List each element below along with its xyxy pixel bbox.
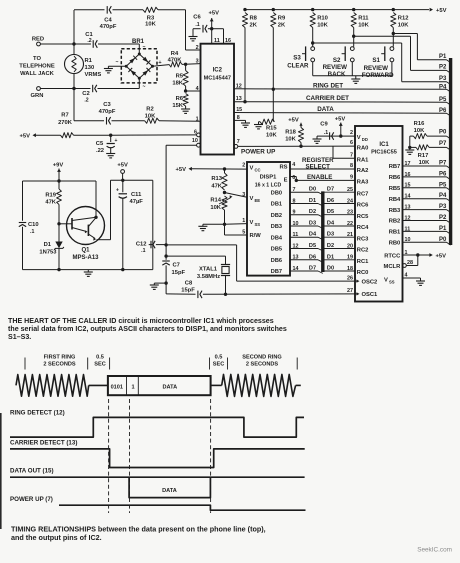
svg-text:S2: S2 [333, 57, 341, 64]
svg-text:D5: D5 [327, 209, 334, 215]
svg-text:21: 21 [347, 232, 353, 238]
svg-text:D3: D3 [309, 221, 316, 227]
svg-text:D4: D4 [309, 232, 317, 238]
svg-text:RS: RS [279, 165, 287, 171]
svg-text:1N753: 1N753 [39, 250, 57, 256]
svg-text:CARRIER DET: CARRIER DET [306, 95, 349, 102]
svg-text:S1: S1 [372, 57, 380, 64]
svg-text:+9V: +9V [53, 163, 64, 169]
svg-text:C4: C4 [104, 18, 112, 24]
svg-text:10K: 10K [210, 205, 221, 211]
svg-text:RB1: RB1 [389, 230, 401, 236]
svg-text:+5V: +5V [436, 8, 447, 14]
svg-text:DB4: DB4 [271, 235, 283, 241]
svg-text:SEC: SEC [213, 362, 225, 368]
svg-text:RB0: RB0 [389, 241, 401, 247]
svg-text:C10: C10 [28, 222, 39, 228]
svg-text:270K: 270K [58, 120, 73, 126]
svg-text:+5V: +5V [117, 163, 128, 169]
svg-text:D7: D7 [309, 266, 316, 272]
svg-text:REVIEW: REVIEW [323, 64, 348, 71]
svg-text:POWER UP: POWER UP [241, 149, 275, 156]
svg-text:RB2: RB2 [389, 219, 401, 225]
svg-text:P5: P5 [439, 97, 447, 103]
svg-text:4: 4 [292, 162, 295, 168]
svg-text:RC0: RC0 [357, 270, 369, 276]
svg-text:CC: CC [255, 168, 261, 173]
svg-text:C8: C8 [185, 281, 193, 287]
svg-text:SS: SS [389, 279, 395, 284]
svg-text:P7: P7 [439, 141, 447, 147]
svg-text:RC7: RC7 [357, 191, 369, 197]
svg-text:RTCC: RTCC [384, 253, 401, 259]
svg-text:S3: S3 [293, 55, 301, 62]
svg-text:TO: TO [33, 56, 41, 62]
svg-text:C12: C12 [136, 242, 147, 248]
svg-text:IC1: IC1 [379, 142, 389, 148]
svg-text:DB1: DB1 [271, 202, 282, 208]
svg-text:D1: D1 [44, 242, 52, 248]
svg-text:10K: 10K [266, 133, 277, 139]
svg-text:1: 1 [196, 117, 199, 123]
svg-text:RB7: RB7 [389, 164, 401, 170]
svg-text:D2: D2 [327, 243, 334, 249]
svg-text:RA0: RA0 [357, 145, 369, 151]
svg-text:RA3: RA3 [357, 180, 369, 186]
svg-text:10K: 10K [414, 128, 425, 134]
svg-text:the serial data from IC2, outp: the serial data from IC2, outputs ASCII … [8, 325, 287, 333]
svg-text:and the output pins of IC2.: and the output pins of IC2. [11, 533, 102, 542]
svg-text:D4: D4 [327, 221, 335, 227]
svg-text:P3: P3 [439, 76, 447, 82]
svg-text:RED: RED [32, 37, 44, 43]
svg-text:6: 6 [350, 140, 353, 146]
svg-text:TELEPHONE: TELEPHONE [19, 64, 55, 70]
svg-text:~: ~ [143, 45, 146, 51]
svg-text:3: 3 [196, 58, 199, 64]
svg-text:R11: R11 [358, 16, 369, 22]
svg-text:R15: R15 [266, 126, 277, 132]
svg-text:2 SECONDS: 2 SECONDS [43, 362, 76, 368]
svg-text:15pF: 15pF [172, 270, 186, 276]
svg-text:6: 6 [194, 130, 197, 136]
svg-text:RC1: RC1 [357, 259, 369, 265]
svg-text:+5V: +5V [209, 10, 220, 16]
svg-text:470K: 470K [168, 58, 183, 64]
svg-text:V: V [384, 277, 388, 283]
svg-text:P2: P2 [439, 215, 447, 221]
svg-text:R10: R10 [317, 16, 328, 22]
svg-text:2: 2 [242, 162, 245, 168]
svg-text:R17: R17 [418, 153, 429, 159]
svg-text:Q1: Q1 [81, 248, 90, 254]
svg-text:R4: R4 [171, 51, 179, 57]
svg-text:1: 1 [242, 218, 245, 224]
svg-text:8: 8 [350, 163, 353, 169]
svg-text:WALL JACK: WALL JACK [20, 71, 55, 77]
svg-text:P4: P4 [439, 193, 447, 199]
svg-text:BACK: BACK [328, 71, 346, 78]
svg-text:20: 20 [347, 243, 353, 249]
svg-text:2: 2 [350, 130, 353, 136]
svg-text:11: 11 [214, 38, 220, 44]
svg-text:.22: .22 [96, 148, 104, 154]
svg-text:PIC16C55: PIC16C55 [371, 150, 397, 156]
svg-text:47K: 47K [211, 184, 222, 190]
svg-text:SeekIC.com: SeekIC.com [417, 547, 452, 554]
svg-text:2K: 2K [278, 23, 286, 29]
svg-text:9: 9 [350, 175, 353, 181]
svg-text:0.5: 0.5 [215, 355, 223, 361]
svg-text:DATA: DATA [162, 384, 177, 390]
svg-text:.2: .2 [84, 98, 88, 104]
svg-text:R19: R19 [45, 193, 56, 199]
svg-text:18K: 18K [172, 81, 183, 87]
svg-text:XTAL1: XTAL1 [199, 267, 218, 273]
svg-text:25: 25 [347, 187, 353, 193]
svg-text:26: 26 [347, 275, 353, 281]
svg-text:RC5: RC5 [357, 214, 369, 220]
svg-text:10K: 10K [419, 160, 430, 166]
svg-text:S1–S3.: S1–S3. [8, 333, 31, 341]
svg-text:+: + [115, 138, 118, 144]
svg-text:RA1: RA1 [357, 158, 369, 164]
svg-text:DB2: DB2 [271, 213, 282, 219]
svg-text:22: 22 [347, 221, 353, 227]
svg-text:R13: R13 [211, 176, 222, 182]
svg-text:DB5: DB5 [271, 247, 282, 253]
svg-text:R14: R14 [210, 198, 221, 204]
svg-text:E: E [284, 178, 288, 184]
svg-text:SS: SS [255, 222, 261, 227]
svg-text:P2: P2 [439, 64, 447, 70]
svg-text:V: V [250, 220, 254, 226]
svg-text:EE: EE [255, 198, 261, 203]
svg-text:R2: R2 [146, 107, 153, 113]
svg-text:RB5: RB5 [389, 186, 401, 192]
svg-text:24: 24 [347, 198, 353, 204]
svg-text:+5V: +5V [288, 118, 299, 124]
svg-text:+5V: +5V [20, 134, 31, 140]
svg-text:P1: P1 [439, 226, 447, 232]
svg-text:C3: C3 [103, 102, 111, 108]
svg-text:+: + [116, 188, 119, 194]
svg-text:P4: P4 [439, 85, 447, 91]
svg-text:RB4: RB4 [389, 197, 401, 203]
svg-text:SECOND RING: SECOND RING [242, 355, 281, 361]
svg-text:DB0: DB0 [271, 190, 282, 196]
svg-text:15K: 15K [172, 103, 183, 109]
svg-text:SELECT: SELECT [306, 163, 331, 170]
svg-text:27: 27 [347, 288, 353, 294]
svg-text:18: 18 [347, 266, 353, 272]
svg-text:RB6: RB6 [389, 175, 401, 181]
svg-text:P6: P6 [439, 171, 447, 177]
svg-text:P3: P3 [439, 204, 447, 210]
svg-text:C11: C11 [131, 192, 142, 198]
svg-text:GRN: GRN [31, 93, 44, 99]
svg-text:DATA: DATA [317, 106, 334, 113]
svg-text:D3: D3 [327, 232, 334, 238]
svg-text:P1: P1 [439, 54, 447, 60]
svg-text:RA2: RA2 [357, 168, 369, 174]
svg-text:R18: R18 [285, 130, 296, 136]
svg-text:D7: D7 [327, 187, 334, 193]
svg-text:C7: C7 [173, 263, 180, 269]
svg-text:OSC2: OSC2 [362, 279, 378, 285]
svg-text:R12: R12 [398, 16, 409, 22]
svg-text:10K: 10K [145, 22, 156, 28]
svg-text:.1: .1 [195, 22, 199, 28]
svg-text:10K: 10K [145, 114, 156, 120]
svg-text:C5: C5 [96, 141, 104, 147]
svg-text:OSC1: OSC1 [362, 292, 379, 298]
svg-text:C9: C9 [320, 122, 328, 128]
svg-text:D1: D1 [309, 198, 316, 204]
svg-text:MCLR: MCLR [384, 264, 402, 270]
svg-text:D0: D0 [309, 187, 316, 193]
svg-text:10K: 10K [285, 137, 296, 143]
svg-text:.1: .1 [141, 248, 145, 254]
svg-text:ENABLE: ENABLE [307, 174, 332, 181]
svg-text:~: ~ [116, 60, 119, 66]
svg-text:10: 10 [192, 138, 198, 144]
svg-text:.2: .2 [87, 38, 91, 44]
svg-text:D6: D6 [327, 198, 334, 204]
svg-text:DATA OUT (15): DATA OUT (15) [10, 468, 54, 475]
svg-text:10K: 10K [398, 23, 409, 29]
svg-text:P0: P0 [439, 237, 447, 243]
svg-text:+5V: +5V [335, 117, 346, 123]
svg-text:R16: R16 [414, 121, 425, 127]
svg-text:P6: P6 [439, 108, 447, 114]
svg-text:19: 19 [347, 255, 353, 261]
svg-text:10K: 10K [317, 23, 328, 29]
svg-text:REVIEW: REVIEW [364, 65, 389, 72]
svg-text:C6: C6 [193, 15, 201, 21]
svg-text:10K: 10K [358, 23, 369, 29]
svg-text:47µF: 47µF [130, 199, 144, 205]
svg-text:R/W: R/W [250, 233, 262, 239]
svg-text:D6: D6 [309, 254, 316, 260]
svg-text:7: 7 [350, 152, 353, 158]
svg-text:3.58MHz: 3.58MHz [197, 274, 220, 280]
svg-text:DB6: DB6 [271, 258, 282, 264]
svg-text:MC145447: MC145447 [204, 76, 231, 82]
svg-text:DD: DD [362, 137, 368, 142]
svg-text:2 SECONDS: 2 SECONDS [246, 362, 279, 368]
svg-text:R8: R8 [250, 16, 258, 22]
svg-text:DB7: DB7 [271, 269, 282, 275]
svg-text:R1: R1 [85, 58, 93, 64]
svg-text:23: 23 [347, 210, 353, 216]
svg-text:D2: D2 [309, 209, 316, 215]
svg-text:FIRST RING: FIRST RING [44, 355, 76, 361]
svg-text:THE HEART OF THE CALLER ID cir: THE HEART OF THE CALLER ID circuit is mi… [8, 317, 274, 325]
svg-text:470pF: 470pF [100, 24, 117, 30]
svg-text:RING DETECT (12): RING DETECT (12) [10, 410, 65, 417]
svg-text:CARRIER DETECT (13): CARRIER DETECT (13) [10, 440, 77, 447]
svg-text:C2: C2 [82, 91, 89, 97]
svg-text:P0: P0 [439, 130, 447, 136]
svg-text:.1: .1 [324, 130, 328, 136]
svg-text:RC6: RC6 [357, 203, 369, 209]
svg-text:RC2: RC2 [357, 248, 369, 254]
svg-text:CLEAR: CLEAR [287, 62, 309, 69]
svg-text:470pF: 470pF [99, 109, 116, 115]
svg-text:DB3: DB3 [271, 224, 282, 230]
svg-text:V: V [357, 135, 361, 141]
svg-text:D0: D0 [327, 266, 334, 272]
svg-text:5: 5 [242, 229, 245, 235]
svg-text:DATA: DATA [162, 488, 177, 494]
svg-text:RC4: RC4 [357, 225, 369, 231]
svg-text:.1: .1 [30, 229, 34, 235]
svg-text:D1: D1 [327, 254, 334, 260]
svg-text:R6: R6 [176, 96, 184, 102]
svg-text:2K: 2K [250, 23, 258, 29]
svg-text:16: 16 [225, 38, 231, 44]
svg-text:4: 4 [196, 86, 199, 92]
svg-text:130: 130 [85, 65, 95, 71]
svg-text:RING DET: RING DET [313, 82, 343, 89]
svg-text:+5V: +5V [176, 167, 187, 173]
svg-text:VRMS: VRMS [85, 72, 102, 78]
svg-text:0101: 0101 [111, 384, 123, 390]
svg-text:V: V [250, 166, 254, 172]
svg-text:P5: P5 [439, 182, 447, 188]
svg-text:IC2: IC2 [213, 68, 223, 74]
svg-text:SEC: SEC [94, 362, 106, 368]
svg-text:0.5: 0.5 [96, 355, 104, 361]
svg-text:RC3: RC3 [357, 236, 369, 242]
svg-text:47K: 47K [45, 200, 56, 206]
svg-text:D5: D5 [309, 243, 316, 249]
svg-text:POWER UP (7): POWER UP (7) [10, 496, 53, 503]
svg-text:DISP1: DISP1 [260, 175, 278, 181]
svg-text:7: 7 [237, 139, 240, 145]
svg-text:2: 2 [196, 45, 199, 51]
svg-text:R7: R7 [61, 113, 68, 119]
svg-text:R9: R9 [278, 16, 286, 22]
svg-text:R5: R5 [176, 74, 184, 80]
svg-text:~: ~ [143, 84, 146, 90]
svg-text:16 x 1 LCD: 16 x 1 LCD [255, 183, 282, 189]
svg-text:+5V: +5V [436, 253, 447, 259]
svg-text:MPS-A13: MPS-A13 [72, 255, 99, 261]
svg-text:1: 1 [131, 384, 134, 390]
svg-text:V: V [250, 196, 254, 202]
svg-text:15pF: 15pF [181, 288, 195, 294]
svg-text:RB3: RB3 [389, 208, 401, 214]
